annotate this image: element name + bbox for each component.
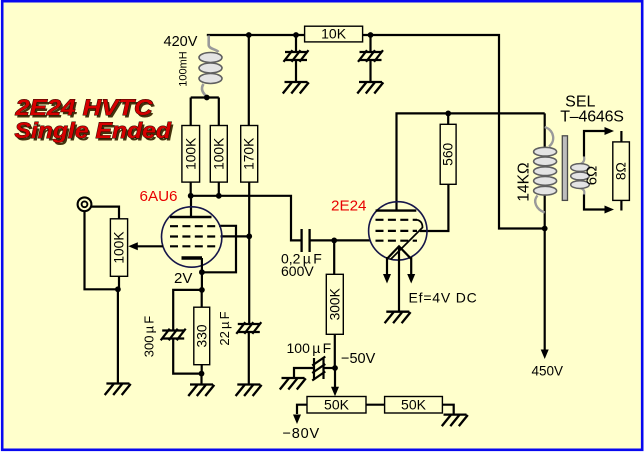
svg-text:2V: 2V [174, 270, 192, 287]
wire 6AU6 g3 tie to cathode [202, 226, 236, 272]
wire screen node to C22 bypass [248, 236, 250, 324]
arrow output bottom [605, 206, 615, 214]
capacitor 300uF cathode bypass [161, 329, 186, 341]
svg-text:Ef=4V DC: Ef=4V DC [409, 290, 478, 306]
node choke bottom junction [204, 95, 210, 101]
wire cathode to bias network [201, 272, 203, 290]
ground below 2E24 filament [385, 312, 411, 324]
wire filament leg right [410, 257, 412, 274]
wire R3 bottom to screen node [248, 182, 250, 236]
wire to 450V measure point [544, 229, 546, 350]
2E24 plate bar [376, 209, 417, 211]
wire C22 to ground [248, 332, 250, 385]
node cathode resistor bottom [199, 371, 205, 377]
wire 8ohm load top stub [620, 131, 622, 142]
wire 8ohm load bottom stub [620, 200, 622, 210]
wire B+ rail from choke top right to transformer bottom node [207, 35, 545, 229]
input jack J1 [78, 197, 92, 211]
arrow 50K pot wiper [331, 387, 339, 397]
wire 330 bottom lead [201, 365, 203, 374]
resistor 330 cathode [194, 307, 210, 365]
svg-text:10K: 10K [321, 26, 347, 42]
resistor 8 ohm load [613, 142, 630, 201]
wire 300uF to cathode resistor bottom [173, 339, 201, 374]
svg-text:100mH: 100mH [178, 51, 190, 87]
wire jack sleeve down [85, 211, 118, 289]
node primary bottom / B+ feed [542, 226, 548, 232]
tube 6AU6 V1 envelope [162, 207, 222, 267]
capacitor 22uF screen bypass [236, 322, 261, 334]
arrow filament left [383, 274, 391, 284]
wire 560 bottom to 2E24 g2 [420, 184, 449, 231]
svg-text:8Ω: 8Ω [614, 162, 629, 180]
svg-text:100K: 100K [211, 137, 226, 170]
wire filament center to ground [398, 246, 400, 311]
ground below 22uF [236, 385, 262, 397]
svg-text:300 µ F: 300 µ F [142, 316, 157, 358]
wire transformer primary line [544, 113, 546, 228]
arrow filament right [407, 274, 415, 284]
capacitor C3 0.2uF coupling [302, 229, 310, 252]
svg-text:−80V: −80V [283, 426, 320, 442]
wire plate node to coupling cap [191, 196, 302, 241]
title text 2E24 HVTC / Single Ended [14, 95, 174, 145]
wire C2 to ground [369, 60, 371, 82]
ground below 330 [188, 385, 214, 397]
6AU6 grid g3 dashes [170, 225, 215, 227]
svg-text:100K: 100K [112, 231, 127, 264]
wire 6AU6 g2 to screen node [221, 235, 250, 237]
svg-text:330: 330 [194, 324, 209, 347]
node screen g2 junction [246, 233, 252, 239]
node 560 top [445, 111, 451, 117]
wire 100uF to bias node [324, 367, 336, 369]
wire to ground [200, 374, 202, 385]
wire choke to plate resistors bar [191, 96, 219, 98]
svg-text:300K: 300K [327, 287, 342, 320]
svg-text:50K: 50K [324, 396, 350, 412]
wire secondary top to output + [584, 131, 605, 157]
2E24 grid row1 dashes [376, 219, 418, 221]
ground right of 50K [442, 415, 468, 427]
wire R1 bottom lead [190, 182, 192, 196]
wire between 50K pair [366, 404, 385, 406]
resistor 100K plate load A [182, 126, 200, 183]
ground left of 100uF [280, 378, 306, 390]
wire 2E24 plate to transformer primary top [397, 113, 545, 210]
resistor 560 screen stopper [440, 124, 456, 184]
wire to 330 top [201, 290, 203, 307]
tube 2E24 V2 envelope [369, 202, 427, 260]
6AU6 plate bar [170, 216, 212, 218]
arrow pot wiper [128, 242, 138, 250]
wire plate lead into 6AU6 [190, 196, 192, 217]
2E24 beam plate tie [391, 220, 423, 260]
wire coupling cap to grid node [310, 239, 335, 241]
wire to R2 top [218, 98, 220, 126]
inductor L1 100mH choke [202, 36, 219, 98]
svg-text:−50V: −50V [341, 351, 376, 367]
node 10K right [368, 32, 374, 38]
2E24 grid g2 dashes [376, 230, 418, 232]
svg-text:420V: 420V [164, 34, 198, 50]
potentiometer 100K volume [110, 219, 127, 276]
svg-text:600V: 600V [281, 263, 314, 279]
node 10K left [293, 32, 299, 38]
ground below volume pot [105, 384, 131, 396]
svg-text:100 µ F: 100 µ F [287, 340, 332, 356]
wire R2 bottom lead [218, 182, 220, 196]
wire to 560 top [447, 113, 449, 124]
node plate junction B [216, 193, 222, 199]
wire bias node to pot wiper [334, 368, 336, 388]
2E24 filament [387, 246, 411, 258]
resistor 10K (B+ dropper) [305, 26, 363, 42]
svg-text:100K: 100K [183, 137, 198, 170]
wire to R1 top [190, 98, 192, 126]
wire 300K bottom lead [334, 334, 336, 368]
resistor 170K screen dropper [241, 126, 258, 183]
svg-text:22 µ F: 22 µ F [217, 311, 232, 345]
arrow output top [605, 127, 615, 135]
arrow -80V feed [293, 415, 301, 425]
svg-text:14KΩ: 14KΩ [516, 162, 533, 201]
svg-text:T–4646S: T–4646S [560, 109, 624, 126]
node plate junction A [188, 193, 194, 199]
svg-text:Single Ended: Single Ended [15, 118, 173, 143]
wire 100uF to ground [294, 368, 314, 378]
potentiometer 50K bias left [307, 396, 366, 413]
capacitor C1 decoupling (left of 10K) [284, 50, 309, 62]
transformer T1 core [562, 136, 567, 201]
2E24 grid g1 dashes [376, 240, 418, 242]
wire to R3 170K top [248, 35, 250, 126]
svg-text:6Ω: 6Ω [584, 166, 601, 186]
transformer T1 secondary winding [581, 157, 585, 196]
wire 50K right to ground [442, 405, 453, 415]
resistor 300K grid leak [326, 274, 343, 334]
wire pot bottom to ground [117, 289, 119, 383]
svg-text:170K: 170K [242, 137, 257, 170]
node cathode K [199, 269, 205, 275]
node 170K tap on B+ rail [246, 32, 252, 38]
wire C1 to ground [295, 60, 297, 82]
wire grid node to 300K [333, 240, 335, 274]
node bias junction [332, 365, 338, 371]
capacitor 100uF bias filter [312, 357, 325, 381]
wire jack hot to pot top [91, 207, 119, 219]
6AU6 grid g1 dashes [170, 245, 215, 247]
6AU6 cathode bar [182, 256, 203, 259]
wire node to C2 [369, 35, 371, 52]
ground below C1 [283, 82, 309, 94]
wire node to C1 [295, 35, 297, 52]
wire pot bottom lead [118, 276, 120, 289]
wire filament leg left [386, 257, 388, 274]
node 2E24 grid [331, 238, 337, 244]
svg-text:6AU6: 6AU6 [140, 188, 178, 205]
node cathode bias split [199, 287, 205, 293]
capacitor C2 decoupling (right of 10K) [358, 50, 383, 62]
svg-text:450V: 450V [532, 364, 564, 379]
wire 6AU6 g1 to volume pot wiper [137, 245, 163, 247]
svg-text:560: 560 [441, 142, 456, 165]
6AU6 grid g2 dashes [170, 235, 215, 237]
node pot bottom junction [115, 286, 121, 292]
arrow 450V [541, 350, 549, 360]
wire grid node to 2E24 g1 [334, 239, 370, 241]
transformer T1 primary winding 14K ohm [535, 127, 553, 213]
wire secondary bottom to output - [584, 195, 605, 210]
resistor 50K bias right [385, 396, 443, 413]
svg-text:2E24: 2E24 [331, 198, 366, 215]
ground below C2 [357, 82, 383, 94]
svg-text:50K: 50K [401, 396, 427, 412]
wire 6AU6 cathode lead [201, 258, 203, 272]
wire to 300uF cap [173, 290, 202, 331]
svg-text:2E24 HVTC: 2E24 HVTC [14, 95, 153, 120]
resistor 100K plate load B [210, 126, 227, 183]
wire 50K left to -80V feed [297, 405, 307, 414]
